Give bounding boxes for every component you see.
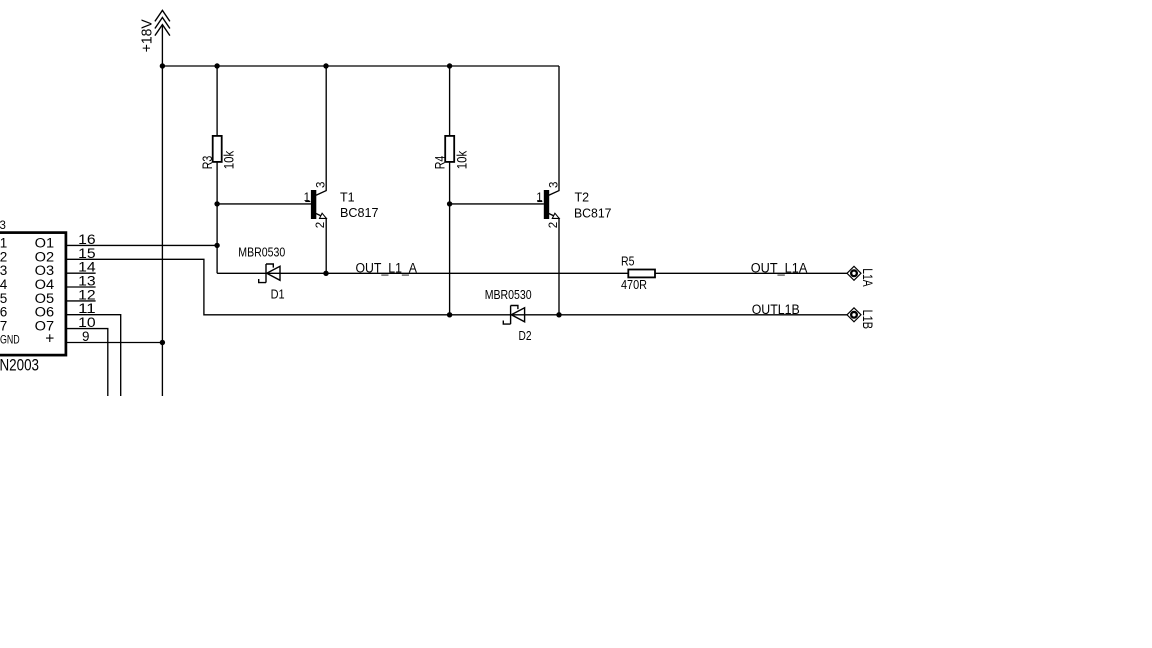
svg-text:13: 13 <box>78 274 96 289</box>
svg-text:2: 2 <box>548 222 560 228</box>
svg-text:O5: O5 <box>35 291 55 306</box>
svg-text:I4: I4 <box>0 277 8 292</box>
svg-text:T2: T2 <box>575 191 590 205</box>
svg-text:L1A: L1A <box>860 268 876 286</box>
svg-text:I6: I6 <box>0 305 7 320</box>
svg-text:I7: I7 <box>0 319 7 334</box>
svg-text:I3: I3 <box>0 263 7 278</box>
svg-text:3: 3 <box>0 220 6 232</box>
svg-text:3: 3 <box>548 182 560 188</box>
svg-text:O4: O4 <box>35 277 55 292</box>
svg-text:OUT_L1_A: OUT_L1_A <box>356 260 418 275</box>
svg-text:MBR0530: MBR0530 <box>485 287 532 302</box>
svg-text:BC817: BC817 <box>574 207 612 221</box>
svg-text:1: 1 <box>304 192 310 204</box>
svg-text:N2003: N2003 <box>0 357 39 375</box>
svg-text:10k: 10k <box>453 150 469 169</box>
svg-text:OUTL1B: OUTL1B <box>752 302 800 317</box>
svg-text:14: 14 <box>78 260 96 275</box>
svg-text:R3: R3 <box>199 156 215 170</box>
svg-text:R4: R4 <box>432 156 448 170</box>
svg-text:11: 11 <box>78 301 96 316</box>
svg-text:T1: T1 <box>340 191 355 205</box>
svg-text:3: 3 <box>316 182 328 188</box>
svg-text:10: 10 <box>78 315 96 330</box>
svg-text:D1: D1 <box>271 286 285 301</box>
svg-text:15: 15 <box>78 246 96 261</box>
svg-text:1: 1 <box>536 192 542 204</box>
svg-text:12: 12 <box>78 287 96 302</box>
svg-text:OUT_L1A: OUT_L1A <box>751 260 808 275</box>
svg-text:2: 2 <box>315 222 327 228</box>
svg-text:16: 16 <box>78 232 96 247</box>
svg-text:10k: 10k <box>220 150 236 169</box>
svg-text:R5: R5 <box>621 255 635 269</box>
svg-text:+: + <box>45 331 54 348</box>
svg-text:O1: O1 <box>35 235 55 250</box>
svg-text:470R: 470R <box>621 277 647 292</box>
svg-text:O3: O3 <box>35 263 55 278</box>
svg-text:9: 9 <box>82 329 89 344</box>
svg-text:MBR0530: MBR0530 <box>238 245 285 260</box>
svg-text:O2: O2 <box>35 249 55 264</box>
svg-text:L1B: L1B <box>860 310 875 329</box>
svg-text:BC817: BC817 <box>340 206 379 220</box>
svg-text:O6: O6 <box>35 305 55 320</box>
svg-text:I5: I5 <box>0 291 7 306</box>
svg-text:GND: GND <box>0 333 20 347</box>
svg-text:D2: D2 <box>519 328 532 343</box>
svg-text:I2: I2 <box>0 249 7 264</box>
svg-text:+18V: +18V <box>140 19 156 52</box>
svg-text:I1: I1 <box>0 235 7 250</box>
